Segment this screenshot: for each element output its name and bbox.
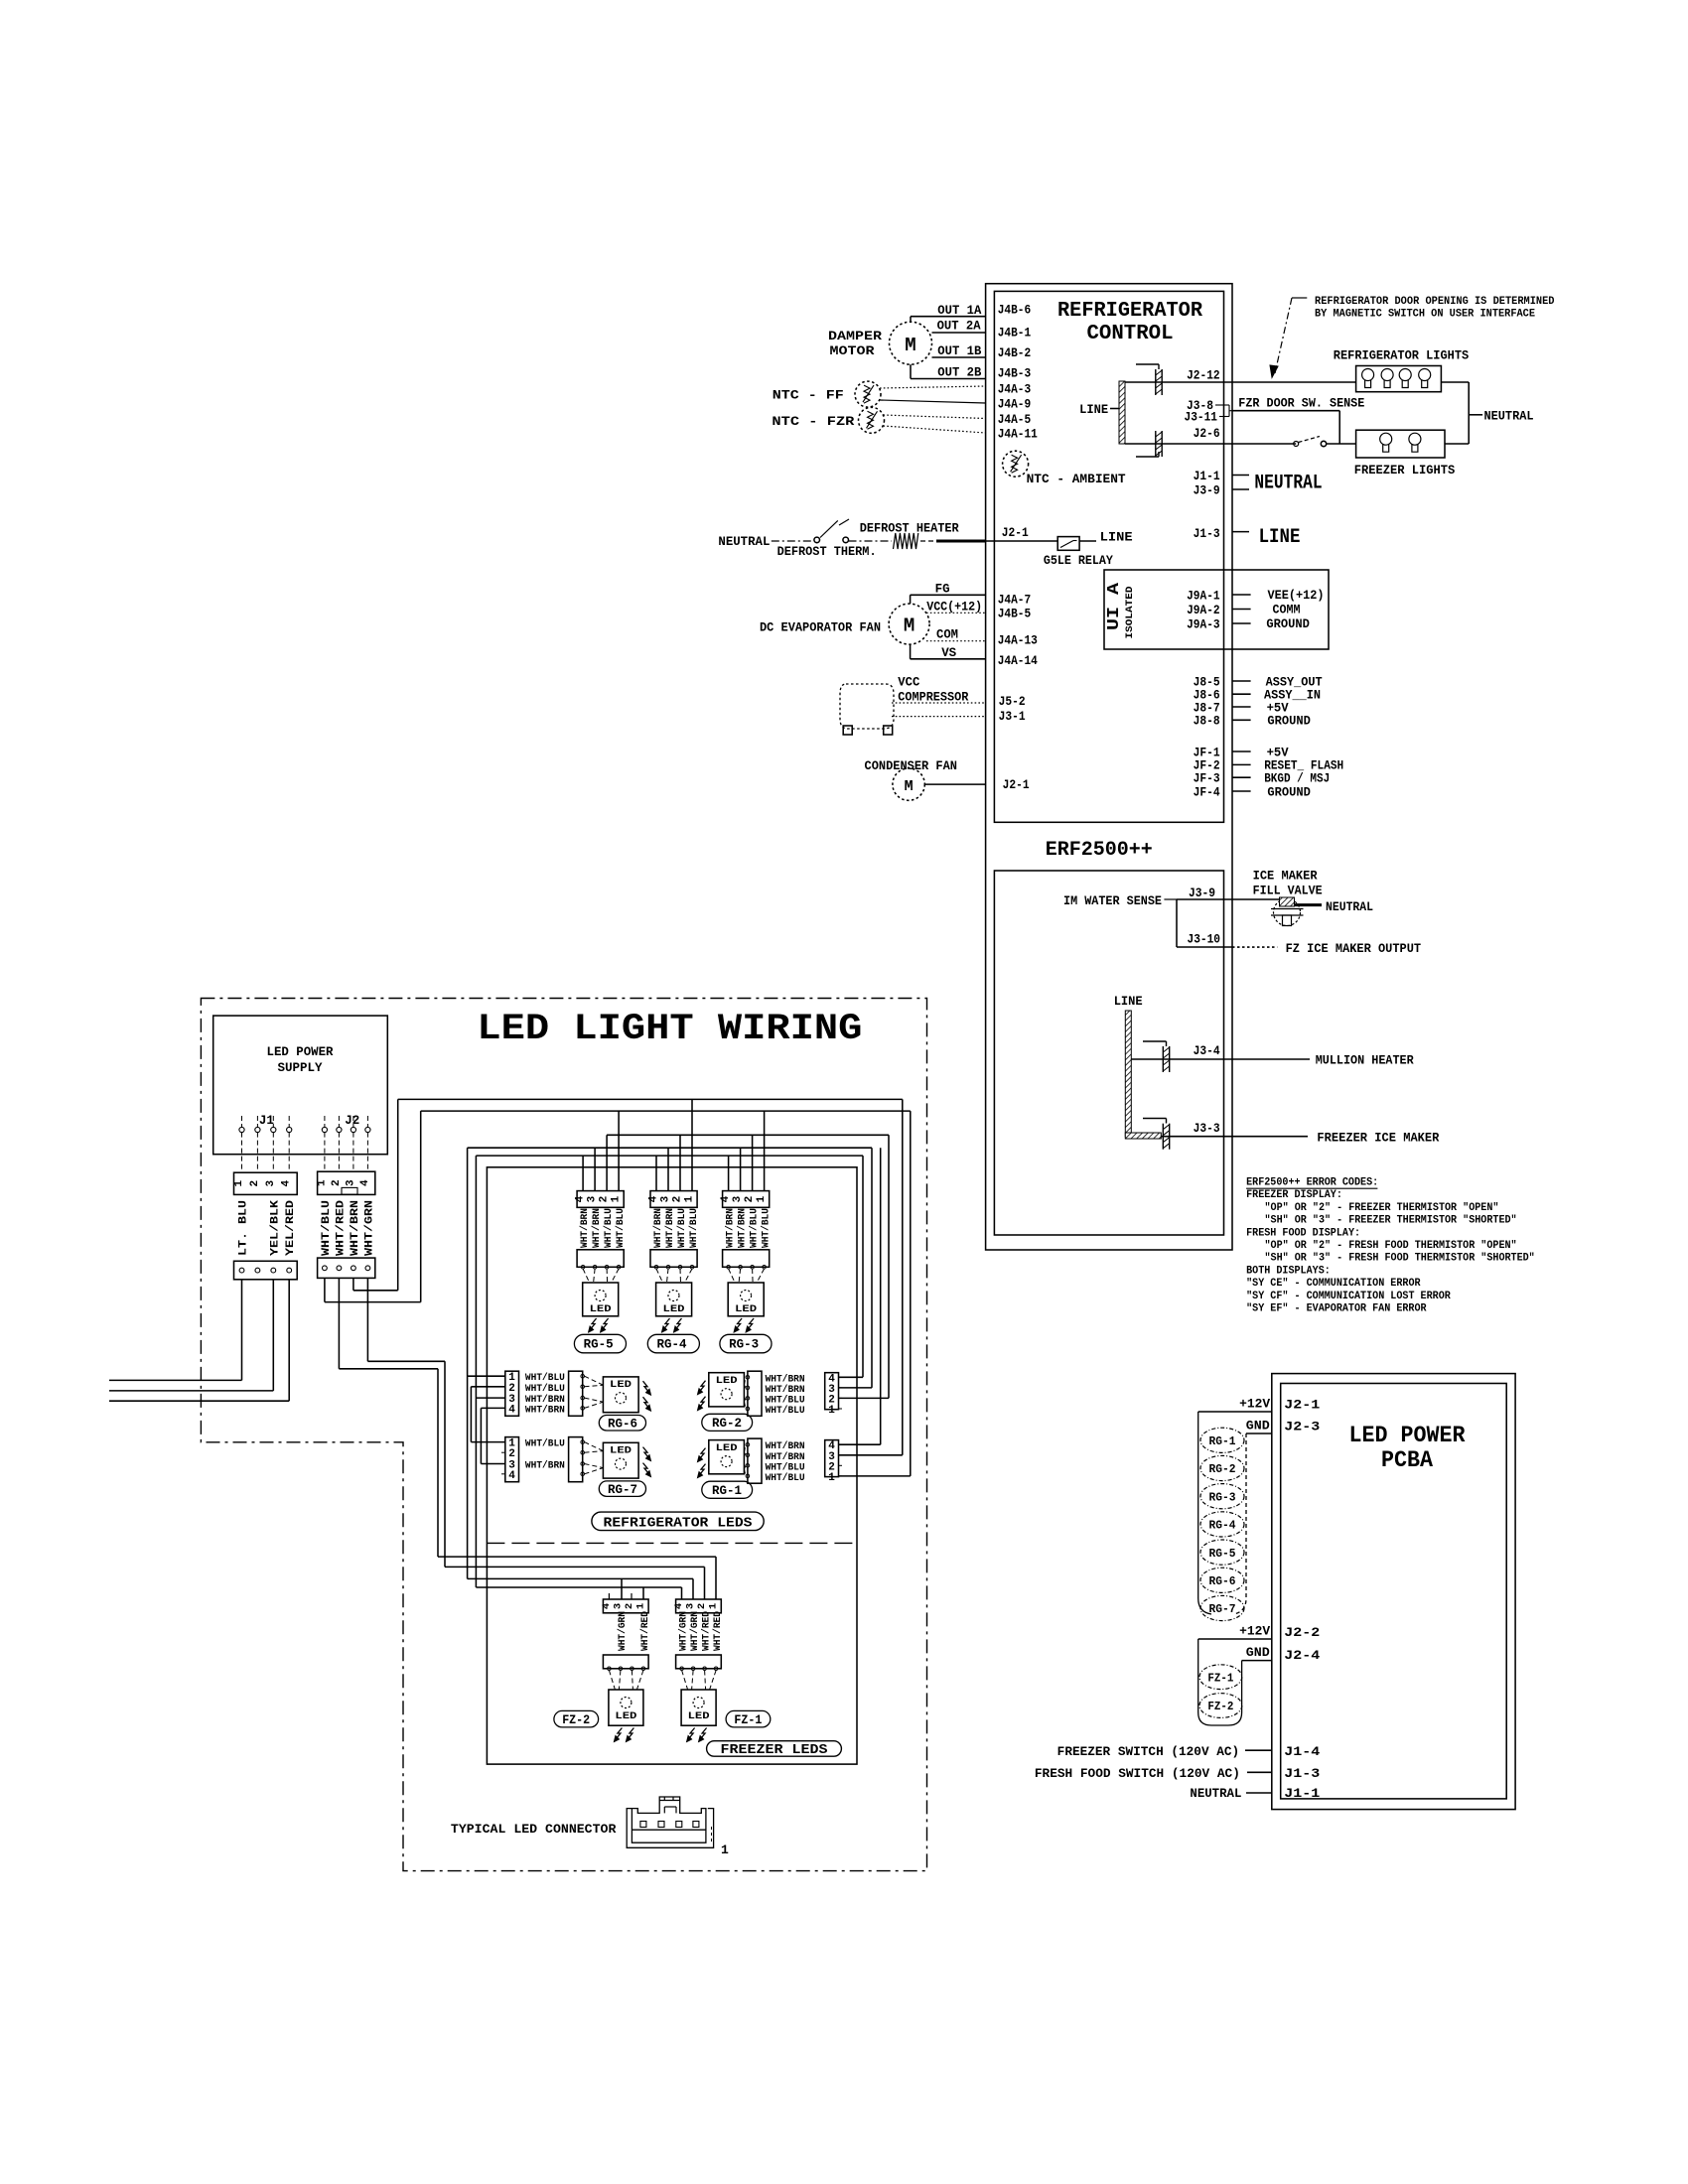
wire J2 pin4 to freezer bus F2 [366,1278,368,1361]
RG-1 receptacle [748,1438,762,1483]
svg-text:WHT/GRN: WHT/GRN [678,1611,690,1651]
svg-text:GROUND: GROUND [1267,715,1311,729]
svg-text:NEUTRAL: NEUTRAL [1254,473,1322,495]
wire J2 pin3 to bus B1 [352,1278,354,1290]
svg-text:IM WATER SENSE: IM WATER SENSE [1063,894,1162,908]
freezer lights box [1356,430,1445,458]
LED power supply box [213,1016,388,1155]
RG-2 dashed leads from LED [744,1377,746,1385]
LED power PCBA outer box [1272,1374,1515,1810]
svg-text:COMM: COMM [1273,604,1301,617]
typical LED connector housing [627,1809,713,1848]
svg-text:WHT/BLU: WHT/BLU [749,1208,761,1248]
FZ-1 light output arrows [689,1728,695,1739]
svg-text:SUPPLY: SUPPLY [278,1060,323,1075]
svg-text:FRESH FOOD DISPLAY:: FRESH FOOD DISPLAY: [1246,1227,1360,1239]
svg-text:GROUND: GROUND [1266,617,1310,631]
svg-text:M: M [905,778,914,795]
wire FZR DOOR SW. SENSE [1232,410,1339,412]
bus wire B4 [468,1147,872,1149]
svg-text:NTC - FF: NTC - FF [773,389,844,403]
svg-text:LINE: LINE [1114,995,1143,1009]
svg-text:"OP" OR "2" - FREEZER THERMIST: "OP" OR "2" - FREEZER THERMISTOR "OPEN" [1265,1202,1499,1214]
LINE isolation bar (lower) [1125,1011,1131,1137]
svg-text:1: 1 [684,1195,696,1202]
svg-text:NTC - FZR: NTC - FZR [772,415,855,429]
RG-5 dashed leads to LED [583,1269,590,1283]
svg-text:"SY CF" - COMMUNICATION LOST E: "SY CF" - COMMUNICATION LOST ERROR [1246,1291,1451,1302]
svg-text:WHT/BLU: WHT/BLU [766,1461,805,1473]
svg-text:WHT/GRN: WHT/GRN [689,1611,701,1651]
svg-text:J2-6: J2-6 [1194,427,1220,441]
svg-text:LINE: LINE [1100,530,1133,545]
svg-text:2: 2 [508,1448,515,1460]
svg-text:YEL/RED: YEL/RED [285,1200,297,1256]
svg-text:WHT/BLU: WHT/BLU [766,1405,805,1417]
svg-text:FREEZER ICE MAKER: FREEZER ICE MAKER [1317,1132,1439,1146]
designator oval RG-2 [702,1414,753,1431]
RG-3 light output arrows [736,1318,742,1329]
wire OUT 1A to J4B-6 [911,316,986,318]
condenser fan motor M3 [893,768,924,800]
svg-text:J4A-3: J4A-3 [998,382,1031,396]
svg-text:WHT/RED: WHT/RED [639,1611,651,1651]
svg-text:VCC(+12): VCC(+12) [926,601,982,614]
damper motor M1 circle [890,322,932,364]
RG-6 dashed leads to LED [585,1376,604,1385]
RG-6 light output arrows [643,1381,649,1392]
svg-text:J4A-14: J4A-14 [998,654,1039,668]
svg-text:JF-1: JF-1 [1194,746,1220,759]
svg-text:WHT/BRN: WHT/BRN [766,1440,805,1452]
svg-text:J2-3: J2-3 [1284,1420,1320,1434]
svg-text:LED: LED [716,1443,738,1454]
svg-text:MOTOR: MOTOR [830,344,876,358]
svg-text:J2-12: J2-12 [1187,369,1220,383]
svg-text:WHT/BRN: WHT/BRN [766,1384,805,1396]
svg-text:VEE(+12): VEE(+12) [1268,589,1325,603]
LED module RG-5 connector (pins 4 3 2 1) [577,1191,624,1208]
wire J2-6 to door switch [1232,443,1296,445]
svg-text:3: 3 [732,1195,744,1202]
svg-text:"SY EF" - EVAPORATOR FAN ERROR: "SY EF" - EVAPORATOR FAN ERROR [1246,1303,1427,1315]
LED power PCBA inner box [1281,1384,1507,1799]
wire relay to LINE [1079,540,1096,542]
wire J2-12 to refrigerator lights [1232,381,1356,383]
svg-text:J1-3: J1-3 [1194,527,1220,541]
svg-text:MULLION HEATER: MULLION HEATER [1316,1054,1414,1068]
RG-4 dashed leads to LED [656,1269,663,1283]
svg-text:RG-1: RG-1 [712,1484,742,1498]
svg-text:FREEZER LEDS: FREEZER LEDS [721,1743,828,1758]
LED RG-6 [603,1377,638,1413]
refrigerator LEDs enclosure box [487,1167,857,1764]
wire J1 pin3 lead out [272,1280,274,1391]
wire RG-6 pin2 to RG-7 pin1 [471,1386,504,1388]
wire +12V to J2-2 / FZ bracket top [1198,1638,1272,1640]
wire OUT 1B to J4B-2 [932,356,986,358]
bus riser to RG-2 pin4 [862,1156,864,1377]
svg-text:J4B-1: J4B-1 [998,326,1031,340]
wire OUT 2B to J4B-3 [911,378,986,380]
refrigerator control inner box (lower section) [994,871,1223,1235]
bus riser to RG-2 pin3 [871,1148,873,1388]
RG-1 dashed leads from LED [744,1444,746,1452]
svg-text:NEUTRAL: NEUTRAL [1484,410,1534,424]
svg-text:WHT/BLU: WHT/BLU [525,1383,565,1395]
wire compressor to J5-2 [892,702,986,704]
wire J3-3 to freezer ice maker [1232,1136,1308,1138]
wire J1 pin4 lead out [288,1280,290,1401]
svg-text:RG-5: RG-5 [1209,1548,1236,1561]
svg-text:2: 2 [508,1383,515,1395]
svg-text:FREEZER SWITCH (120V AC): FREEZER SWITCH (120V AC) [1057,1745,1240,1759]
designator oval RG-6 (PCBA) [1200,1568,1244,1592]
designator oval FZ-1 [726,1710,771,1727]
svg-text:1: 1 [316,1179,328,1186]
opto-triac (J2-12) [1125,381,1232,383]
svg-text:J4A-9: J4A-9 [998,397,1031,411]
designator oval FREEZER LEDS [707,1741,842,1757]
defrost heater coil [894,533,918,549]
wire fill valve neutral (thick) [1295,903,1322,906]
svg-text:1: 1 [828,1472,835,1484]
svg-text:+5V: +5V [1267,701,1289,715]
svg-text:WHT/RED: WHT/RED [335,1200,347,1256]
wire compressor to J3-1 [892,716,986,718]
wire NTC-FZR to J4A-11 [884,426,986,433]
svg-text:2: 2 [672,1196,684,1203]
wire NTC-FZR to J4A-5 [884,415,986,419]
J1 pin dashed leads [241,1133,243,1173]
svg-text:1: 1 [634,1603,646,1609]
bus wire B1 [398,1098,903,1100]
svg-text:FZR DOOR SW. SENSE: FZR DOOR SW. SENSE [1238,397,1364,411]
defrost thermostat switch [814,537,820,543]
wire IM water sense bracket [1164,898,1177,900]
svg-text:LED POWER: LED POWER [267,1044,334,1059]
svg-text:ERF2500++ ERROR CODES:: ERF2500++ ERROR CODES: [1246,1177,1378,1189]
svg-text:WHT/GRN: WHT/GRN [617,1611,629,1651]
wire J3-9 to ice maker fill valve [1232,898,1279,900]
wire VS to J4A-14 [911,658,986,660]
svg-text:FZ ICE MAKER OUTPUT: FZ ICE MAKER OUTPUT [1286,942,1422,956]
svg-text:VS: VS [941,646,956,660]
svg-text:J1-3: J1-3 [1284,1766,1320,1781]
LED module FZ-2 connector (pins 4 3 2 1) [603,1599,648,1613]
connector J1 housing (pin numbers 1-4) [234,1172,298,1194]
svg-text:RG-3: RG-3 [729,1338,759,1352]
svg-text:J4A-11: J4A-11 [998,427,1038,441]
svg-text:WHT/BLU: WHT/BLU [688,1208,700,1248]
connector J2 housing (pin numbers 1-4) [318,1171,375,1194]
svg-text:2: 2 [744,1196,756,1203]
svg-text:NEUTRAL: NEUTRAL [718,535,770,549]
svg-text:BKGD / MSJ: BKGD / MSJ [1264,772,1330,786]
wire VCC(+12) to J4B-5 [926,612,986,614]
svg-text:3: 3 [345,1179,356,1186]
wire J2 pin1 to bus B2 [324,1278,326,1301]
svg-text:GND: GND [1246,1420,1271,1433]
svg-text:RG-3: RG-3 [1209,1491,1236,1504]
svg-text:FZ-1: FZ-1 [734,1713,762,1727]
svg-text:1: 1 [828,1405,835,1417]
designator oval FZ-2 [554,1710,599,1727]
svg-text:LINE: LINE [1079,403,1108,417]
RG-7 receptacle [569,1437,583,1482]
svg-text:1: 1 [233,1180,245,1187]
svg-text:LED: LED [610,1446,632,1457]
svg-text:3: 3 [660,1195,672,1202]
svg-text:ISOLATED: ISOLATED [1125,587,1136,639]
svg-text:"SY CE" - COMMUNICATION ERROR: "SY CE" - COMMUNICATION ERROR [1246,1278,1421,1290]
svg-text:WHT/RED: WHT/RED [712,1611,724,1651]
svg-text:RG-4: RG-4 [1209,1520,1236,1533]
RG-2 receptacle [748,1371,762,1416]
svg-text:RG-2: RG-2 [712,1417,742,1431]
LED module RG-7 connector (pins 1-4) [505,1437,519,1482]
connector J1 receptacle [234,1261,298,1280]
svg-text:WHT/RED: WHT/RED [701,1611,713,1651]
FZ-1 dashed leads to LED [682,1671,688,1691]
designator oval RG-5 [574,1334,626,1353]
svg-text:+12V: +12V [1239,1624,1271,1638]
FZ harness bracket [1198,1639,1242,1725]
wire lights neutral bus [1441,381,1469,383]
typical LED connector latch tab [659,1800,680,1802]
svg-text:J2-1: J2-1 [1002,526,1029,540]
svg-text:NTC - AMBIENT: NTC - AMBIENT [1027,473,1126,486]
svg-text:WHT/BRN: WHT/BRN [725,1208,737,1248]
RG harness bracket [1198,1412,1211,1614]
RG-7 dashed leads to LED [585,1442,604,1451]
designator oval RG-6 [599,1416,645,1432]
svg-text:J9A-3: J9A-3 [1187,617,1220,631]
svg-text:J1-1: J1-1 [1194,470,1220,483]
RG-2 connector (pins 4-1) [825,1373,839,1410]
UI A isolated interface box [1104,570,1329,649]
wire switch to freezer lights [1327,443,1356,445]
LED FZ-2 [609,1690,643,1725]
svg-text:NEUTRAL: NEUTRAL [1326,900,1373,914]
LED module RG-4 connector (pins 4 3 2 1) [650,1191,697,1208]
refrigerator lights box [1356,366,1442,392]
svg-text:"SH" OR "3" - FREEZER THERMIST: "SH" OR "3" - FREEZER THERMISTOR "SHORTE… [1265,1215,1517,1227]
svg-text:WHT/BLU: WHT/BLU [525,1372,565,1384]
svg-text:LED: LED [610,1380,632,1391]
bus wire B5 [476,1155,863,1157]
svg-text:2: 2 [696,1603,708,1609]
svg-text:LED: LED [735,1304,757,1315]
RG-1 connector (pins 4-1) [825,1440,839,1477]
svg-text:3: 3 [265,1180,277,1187]
svg-text:WHT/BLU: WHT/BLU [761,1208,773,1248]
svg-text:WHT/BLU: WHT/BLU [766,1394,805,1406]
svg-text:J2-4: J2-4 [1284,1648,1320,1663]
svg-text:DEFROST THERM.: DEFROST THERM. [777,545,877,559]
svg-text:2: 2 [599,1196,611,1203]
svg-text:COM: COM [936,628,958,642]
RG-3 dashed leads to LED [729,1269,736,1283]
designator oval RG-3 [720,1334,772,1353]
freezer bus wire F2 [445,1566,705,1568]
svg-text:OUT 1B: OUT 1B [937,344,981,358]
tick J9A-1 / label VEE(+12) [1232,594,1251,596]
svg-text:RG-4: RG-4 [657,1338,687,1352]
svg-text:LED: LED [590,1304,612,1315]
RG-3 pin stub wires to bus [728,1156,730,1191]
RG-6 receptacle [569,1371,583,1416]
svg-text:REFRIGERATOR LEDS: REFRIGERATOR LEDS [604,1516,753,1531]
svg-text:RG-6: RG-6 [608,1418,637,1432]
RG-4 pin stub wires to bus [655,1156,657,1191]
svg-text:WHT/BLU: WHT/BLU [525,1438,565,1450]
svg-text:WHT/BRN: WHT/BRN [525,1460,565,1472]
relay K1 G5LE [1057,537,1079,551]
svg-text:J9A-2: J9A-2 [1187,604,1220,617]
DC evaporator fan motor M2 [889,604,929,644]
svg-text:3: 3 [612,1603,624,1609]
svg-text:JF-3: JF-3 [1194,772,1220,786]
svg-text:OUT 2B: OUT 2B [937,366,981,380]
svg-text:3: 3 [685,1603,697,1609]
RG-7 light output arrows [643,1447,649,1458]
svg-text:WHT/BLU: WHT/BLU [603,1208,615,1248]
svg-text:J5-2: J5-2 [999,695,1026,709]
svg-text:J8-7: J8-7 [1194,701,1220,715]
svg-text:RG-6: RG-6 [1209,1575,1236,1588]
RG-5 receptacle [577,1250,624,1268]
svg-text:J3-10: J3-10 [1188,933,1221,947]
svg-text:4: 4 [673,1603,685,1609]
svg-text:J4B-6: J4B-6 [998,303,1031,317]
LED module RG-3 connector (pins 4 3 2 1) [723,1191,770,1208]
svg-text:M: M [904,615,914,637]
LED RG-5 [583,1283,619,1316]
svg-text:LT. BLU: LT. BLU [238,1200,250,1256]
svg-text:J3-9: J3-9 [1189,887,1215,900]
LED RG-1 [709,1440,745,1474]
svg-text:WHT/BRN: WHT/BRN [525,1404,565,1416]
svg-text:G5LE RELAY: G5LE RELAY [1044,554,1113,568]
wire bus B5 riser to RG-6 pin3 and freezer F4 [475,1156,477,1587]
svg-text:4: 4 [648,1195,660,1202]
svg-text:1: 1 [611,1195,623,1202]
svg-text:FRESH FOOD SWITCH (120V AC): FRESH FOOD SWITCH (120V AC) [1035,1767,1240,1781]
tick J9A-2 / label COMM [1232,609,1251,611]
svg-text:WHT/BRN: WHT/BRN [350,1200,361,1256]
svg-text:WHT/GRN: WHT/GRN [363,1200,375,1256]
FZ-2 light output arrows [616,1728,622,1739]
svg-text:LED: LED [663,1304,685,1315]
LED RG-2 [709,1373,745,1407]
svg-text:J1: J1 [259,1114,274,1128]
svg-text:2: 2 [624,1603,635,1609]
designator oval RG-1 (PCBA) [1200,1428,1244,1452]
wire J2 pin2 to freezer bus F1 [338,1278,340,1368]
freezer bus wire F1 [438,1556,716,1558]
freezer door switch [1294,442,1299,447]
svg-text:FG: FG [935,583,950,597]
svg-text:CONTROL: CONTROL [1087,323,1174,345]
svg-text:J2-1: J2-1 [1003,778,1030,792]
LED RG-3 [728,1283,764,1316]
svg-text:DC EVAPORATOR FAN: DC EVAPORATOR FAN [760,620,881,634]
tick J1-3 [1232,531,1249,533]
svg-text:LED POWER: LED POWER [1349,1423,1466,1448]
FZ-1 receptacle [676,1655,722,1669]
J1 supply pins [239,1127,244,1132]
wire J3-4 to mullion heater [1232,1058,1310,1060]
svg-text:RG-7: RG-7 [608,1483,637,1497]
designator oval FZ-1 (PCBA) [1199,1665,1242,1690]
thermistor NTC - AMBIENT [1003,451,1029,477]
svg-text:FZ-2: FZ-2 [1207,1701,1233,1713]
wire J2-1 to relay [986,540,1058,542]
designator oval REFRIGERATOR LEDS [592,1512,764,1531]
wire bus B4 riser to RG-6 pin1 and freezer F3 [467,1148,469,1578]
bus wire B3 [607,1134,889,1136]
svg-text:RG-7: RG-7 [1209,1603,1236,1616]
svg-text:REFRIGERATOR: REFRIGERATOR [1057,300,1202,323]
svg-text:CONDENSER FAN: CONDENSER FAN [865,759,958,773]
svg-text:ERF2500++: ERF2500++ [1046,839,1153,862]
connector J2 receptacle [318,1258,375,1278]
svg-text:2: 2 [331,1179,343,1186]
designator oval RG-2 (PCBA) [1200,1455,1244,1480]
wire GND to J2-4 [1242,1660,1272,1662]
RG-2 light output arrows [700,1381,706,1392]
wire COM to J4A-13 [926,640,986,642]
svg-text:4: 4 [575,1195,587,1202]
svg-text:2: 2 [249,1180,261,1187]
opto-triac (J2-6) [1125,443,1232,445]
svg-text:FILL VALVE: FILL VALVE [1253,885,1323,898]
svg-text:UI A: UI A [1105,582,1124,630]
ice maker fill valve symbol [1274,899,1301,926]
svg-text:J2: J2 [345,1114,359,1128]
svg-text:LED: LED [615,1711,636,1722]
svg-text:LINE: LINE [1259,526,1301,549]
LED FZ-1 [681,1690,716,1725]
LINE isolation bar (upper) [1119,381,1125,444]
svg-text:FREEZER DISPLAY:: FREEZER DISPLAY: [1246,1189,1342,1201]
svg-text:J8-8: J8-8 [1194,715,1220,729]
svg-text:YEL/BLK: YEL/BLK [269,1200,281,1256]
note leader arrow [1292,297,1307,299]
svg-text:WHT/BRN: WHT/BRN [579,1208,591,1248]
LED RG-4 [656,1283,692,1316]
refrigerator light bulbs [1362,369,1374,381]
svg-text:4: 4 [359,1179,371,1186]
svg-text:M: M [905,335,915,356]
svg-text:J4A-7: J4A-7 [998,593,1031,607]
svg-text:WHT/BRN: WHT/BRN [766,1373,805,1385]
svg-text:"SH" OR "3" - FRESH FOOD THERM: "SH" OR "3" - FRESH FOOD THERMISTOR "SHO… [1265,1253,1535,1265]
wire OUT 2A to J4B-1 [932,332,986,334]
svg-text:J4A-13: J4A-13 [998,633,1038,647]
svg-text:GND: GND [1246,1646,1271,1660]
svg-text:J4B-5: J4B-5 [998,608,1031,621]
svg-text:FZ-1: FZ-1 [1207,1672,1233,1685]
designator oval FZ-2 (PCBA) [1199,1694,1242,1718]
svg-text:LED: LED [688,1711,710,1722]
svg-text:J2-1: J2-1 [1284,1397,1320,1412]
svg-text:J1-1: J1-1 [1284,1786,1320,1801]
svg-text:4: 4 [601,1603,613,1609]
svg-text:WHT/BLU: WHT/BLU [615,1208,627,1248]
svg-text:VCC: VCC [898,676,919,690]
